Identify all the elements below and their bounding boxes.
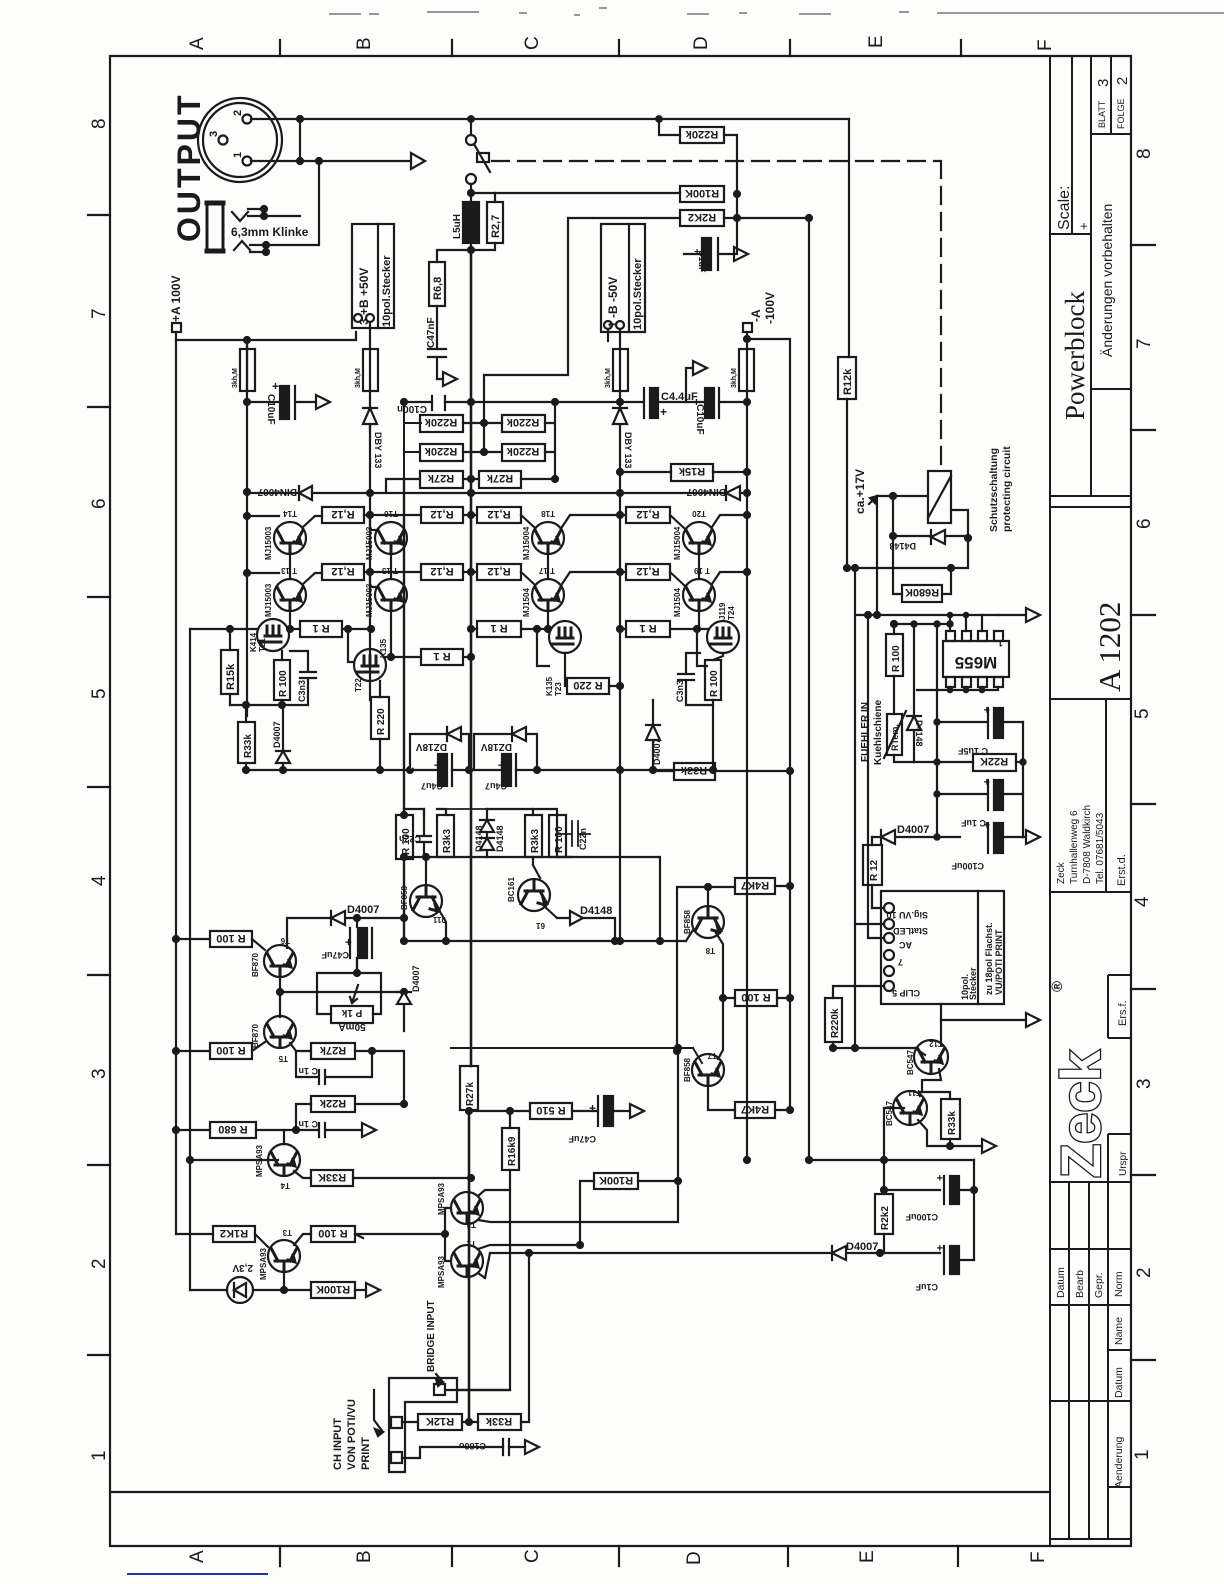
svg-text:C1uF: C1uF (915, 1282, 938, 1292)
terminal +A 100V (172, 323, 181, 332)
XLR output connector J1 (198, 98, 282, 182)
resistor R22K (protection) (973, 754, 1016, 771)
diode LED 2,3V (227, 1277, 253, 1303)
svg-text:K135: K135 (379, 638, 388, 658)
svg-text:K414: K414 (249, 632, 258, 652)
resistor R 100 (pre-driver link) (735, 990, 777, 1006)
svg-text:C4u7: C4u7 (485, 781, 507, 791)
grid letters top A-F (187, 35, 1056, 51)
svg-text:Zeck: Zeck (1049, 1050, 1112, 1178)
svg-text:MJ1504: MJ1504 (673, 588, 682, 617)
svg-text:C22n: C22n (578, 828, 588, 850)
transistor T9 BF858 (VAS) (410, 885, 442, 917)
wire: R2K2 left to feedback drop (484, 218, 680, 452)
svg-text:R,12: R,12 (430, 508, 453, 520)
svg-text:®: ® (1049, 981, 1066, 992)
resistor R,12 (2d) (626, 564, 670, 580)
border frame (110, 56, 1131, 1546)
resistor R 1 (d) (626, 621, 670, 637)
wire: T1 emitter row (478, 1245, 580, 1278)
svg-text:3kh,M: 3kh,M (605, 368, 612, 388)
wire: comparator feed row (857, 496, 998, 634)
svg-text:C47uF: C47uF (321, 950, 349, 960)
svg-text:R27k: R27k (319, 1044, 346, 1056)
svg-text:Bearb: Bearb (1074, 1270, 1086, 1298)
svg-text:1: 1 (998, 638, 1003, 648)
grid numbers left 8-1 (89, 118, 110, 1461)
wire: R100 leads (176, 939, 265, 950)
svg-text:10pol.Stecker: 10pol.Stecker (632, 258, 644, 330)
svg-text:AC: AC (899, 940, 912, 950)
svg-text:R 680: R 680 (218, 1123, 247, 1135)
svg-text:R220k: R220k (685, 128, 718, 140)
svg-text:R 12: R 12 (869, 859, 880, 881)
transistor T11 BC547 (893, 1091, 927, 1125)
svg-text:L5uH: L5uH (452, 214, 463, 239)
transistor T19 MJ1504 (683, 579, 715, 611)
svg-text:R 1: R 1 (490, 622, 507, 634)
resistor R16k9 (vert) (502, 1128, 519, 1170)
wire: diff pair bases (445, 1208, 449, 1261)
svg-text:R 510: R 510 (536, 1104, 565, 1116)
svg-text:C100n: C100n (397, 403, 427, 414)
transistor T4 MPSA93 (268, 1144, 300, 1176)
wire: bridge pin to R16k9 (445, 1389, 510, 1391)
+A left rail (175, 332, 177, 1234)
svg-text:+A 100V: +A 100V (169, 275, 183, 322)
wire: T2 emitter row (478, 1048, 678, 1222)
wire: input gnd row (402, 1447, 525, 1458)
svg-text:BRIDGE INPUT: BRIDGE INPUT (426, 1300, 437, 1372)
svg-text:C4.4uF: C4.4uF (661, 391, 698, 403)
svg-text:R100K: R100K (685, 187, 719, 199)
svg-text:VU/POTI PRINT: VU/POTI PRINT (994, 929, 1004, 995)
svg-text:D4007: D4007 (652, 738, 662, 765)
resistor R27k (divider left) (420, 471, 463, 488)
wire: T16 base stub (370, 515, 377, 530)
capacitor C180o (503, 1439, 509, 1455)
svg-text:Gepr.: Gepr. (1093, 1272, 1105, 1298)
svg-text:MJ1504: MJ1504 (522, 588, 531, 617)
svg-text:MJ15004: MJ15004 (673, 526, 682, 560)
svg-text:T6: T6 (280, 936, 290, 945)
resistor R220k (top right) (680, 127, 724, 143)
ground (362, 1123, 376, 1137)
svg-text:FOLGE: FOLGE (1116, 98, 1126, 129)
resistor R100K (T2 collector load) (594, 1173, 638, 1189)
wire: T24 source chain (713, 653, 723, 770)
mosfet T22 K135 (354, 649, 386, 681)
svg-text:+: + (589, 1101, 596, 1115)
wire: T8 emitter chain (716, 933, 723, 998)
resistor R 510 (530, 1103, 572, 1119)
svg-text:C3n3: C3n3 (675, 680, 685, 702)
svg-text:D4148: D4148 (474, 825, 484, 852)
output rail lower part (468, 1110, 471, 1423)
transistor T7 BF858 (692, 1054, 724, 1086)
wire: R33k rail stubs (245, 705, 247, 770)
wire: emitter node onward (372, 1051, 404, 1104)
svg-text:6: 6 (1134, 518, 1155, 529)
resistor R,12 (2b) (421, 564, 463, 580)
svg-text:D4007: D4007 (411, 965, 421, 992)
resistor R100K (LED row) (311, 1282, 355, 1298)
transistor T6 BF870 (264, 945, 296, 977)
wire: T23 source to R220h to -B rail (565, 653, 620, 686)
svg-text:T23: T23 (554, 682, 563, 696)
connector body (L shape) (389, 1378, 457, 1472)
inductor L 5uH (463, 202, 479, 243)
svg-text:R22k: R22k (319, 1097, 346, 1109)
relay contact switch S1 (466, 135, 476, 145)
resistor R100K (top right) (680, 186, 724, 202)
capacitor C1uF (top) (702, 238, 711, 270)
svg-text:T2: T2 (466, 1220, 476, 1229)
svg-text:R2k2: R2k2 (880, 1206, 891, 1230)
svg-text:T24: T24 (727, 606, 736, 620)
svg-text:A: A (187, 1550, 208, 1563)
diode DIN4007 (right) (726, 486, 740, 500)
resistor R33k (on left rail, vert) (238, 722, 255, 763)
svg-text:Datum: Datum (1055, 1267, 1067, 1298)
resistor R 1 (b) (421, 649, 463, 665)
svg-text:T5: T5 (278, 1054, 288, 1063)
bias rail (246, 769, 713, 771)
resistor R,12 (1c) (477, 507, 521, 523)
resistor R6,8 (429, 262, 445, 306)
ground (316, 395, 330, 409)
fuse 1kA,M (+A) (240, 349, 255, 391)
wire: R6,8 to C47nF (436, 306, 438, 349)
svg-text:BC161: BC161 (507, 877, 516, 902)
svg-text:R16k9: R16k9 (507, 1136, 518, 1166)
svg-text:R,12: R,12 (636, 508, 659, 520)
svg-text:3kh,M: 3kh,M (355, 368, 362, 388)
resistor R,12 (2c) (477, 564, 521, 580)
svg-text:R15k: R15k (678, 465, 705, 477)
svg-text:8: 8 (1134, 148, 1155, 159)
svg-text:+: + (1076, 222, 1091, 230)
capacitor C22n (417, 809, 431, 857)
svg-text:D4007: D4007 (846, 1241, 878, 1253)
svg-text:3: 3 (208, 131, 220, 137)
diode D4148 (at Q6) (544, 906, 583, 925)
wire: R220 leads (379, 681, 381, 770)
svg-text:3 +B +50V: 3 +B +50V (357, 268, 371, 325)
svg-text:R220k: R220k (424, 416, 457, 428)
wire: row2 to driver row (290, 611, 699, 657)
svg-text:BF858: BF858 (400, 885, 409, 910)
svg-text:2,3V: 2,3V (232, 1262, 253, 1273)
svg-text:T8: T8 (705, 946, 715, 955)
svg-text:R,12: R,12 (430, 565, 453, 577)
svg-text:R,12: R,12 (487, 508, 510, 520)
svg-text:C22n: C22n (399, 834, 421, 844)
svg-text:R220k: R220k (506, 416, 539, 428)
grid letters bottom A-F (187, 1549, 1049, 1565)
title block lines (1049, 56, 1131, 1546)
capacitor C100uF (987, 823, 989, 853)
svg-text:Zeck: Zeck (1056, 861, 1067, 884)
svg-text:3: 3 (1095, 79, 1112, 87)
resistor R2K2 (top right) (680, 210, 724, 226)
main left rail junctions (244, 489, 250, 495)
capacitor C3n3 (left) (290, 651, 316, 705)
resistor R 220 (T22 source, vert) (371, 697, 389, 739)
svg-text:MJ15003: MJ15003 (365, 526, 374, 560)
svg-text:+: + (345, 935, 352, 949)
capacitor C47uF (zobel) (597, 1096, 599, 1126)
svg-text:Urspr: Urspr (1118, 1151, 1129, 1176)
svg-text:BLATT: BLATT (1097, 100, 1107, 128)
svg-text:R220k: R220k (830, 1008, 841, 1038)
resistor R680K (902, 585, 942, 602)
wire: switch to L and R2,7 (471, 193, 495, 202)
resistor R 1 (a) (300, 621, 342, 637)
mid horizontal rail (lower driver) (404, 930, 693, 941)
resistor R 1 (c) (477, 621, 521, 637)
wire: T11 emitter to gnd (918, 1120, 982, 1146)
svg-text:8: 8 (89, 118, 110, 129)
svg-text:6,3mm Klinke: 6,3mm Klinke (231, 225, 309, 239)
diode D4007 (mid, vert) (646, 700, 660, 771)
wire: pin4 rail down (369, 322, 371, 349)
wire: divider row2 (463, 451, 502, 453)
svg-text:R27k: R27k (465, 1082, 476, 1106)
wire: IC bottom row (917, 687, 998, 690)
resistor R 100 (comparator, vert) (886, 634, 903, 676)
resistor R1K2 (213, 1226, 255, 1242)
resistor R 100 (T21 source, vert) (274, 660, 290, 700)
wire: RTem leads (894, 676, 914, 762)
svg-text:D4148: D4148 (495, 825, 505, 852)
resistor R,12 (1d) (626, 507, 670, 523)
svg-text:R 100: R 100 (216, 932, 245, 944)
grid numbers right 8-1 (1132, 148, 1155, 1460)
wire: tail row with D4007 (485, 1253, 880, 1278)
svg-text:T7: T7 (707, 1051, 717, 1060)
svg-text:DIN4007: DIN4007 (686, 486, 726, 497)
wire: VAS cell tops (404, 809, 446, 815)
resistor R 100 (T3) (311, 1226, 355, 1242)
svg-text:Scale:: Scale: (1056, 186, 1073, 230)
svg-text:011: 011 (433, 915, 446, 924)
svg-text:3kh,M: 3kh,M (731, 368, 738, 388)
wire: T8 base row (677, 887, 735, 1051)
svg-text:DZ18V: DZ18V (481, 741, 512, 752)
svg-text:7: 7 (898, 957, 903, 967)
+B rail down (369, 391, 371, 700)
svg-text:Erst.d.: Erst.d. (1116, 854, 1128, 886)
svg-text:protecting circuit: protecting circuit (1001, 446, 1013, 532)
svg-text:+: + (498, 758, 505, 772)
svg-text:+: + (937, 1241, 943, 1253)
resistor R2,7 (487, 202, 503, 243)
svg-text:A: A (187, 37, 208, 50)
node: pin bridge (297, 116, 303, 122)
transistor T13 MJ15003 (274, 579, 306, 611)
resistor R33k (driver feed) (674, 763, 715, 780)
svg-text:CLIP 5: CLIP 5 (892, 988, 920, 998)
resistor R15k (left, vert) (221, 650, 238, 694)
wire: R2K2 right to right rail (724, 217, 809, 219)
svg-text:Name: Name (1113, 1317, 1125, 1345)
svg-text:PRINT: PRINT (360, 1437, 372, 1470)
resistor R 100 (T5 base) (210, 1043, 252, 1059)
bottom right supply row (809, 1159, 974, 1161)
svg-text:D4007: D4007 (897, 824, 929, 836)
wire: +A to main left rail (176, 332, 356, 492)
svg-text:R33K: R33K (318, 1171, 346, 1183)
capacitor C10uF (right) (705, 388, 714, 418)
svg-text:BC547: BC547 (906, 1050, 915, 1075)
diode D4007 (par R33k) (276, 705, 290, 770)
connector 10pol -B -50V (601, 224, 645, 332)
resistor R 220 (T23 source, horiz) (567, 678, 609, 694)
transistor T18 MJ15004 (532, 522, 564, 554)
transistor T12 BC547 (914, 1040, 948, 1074)
wire: L/R2,7 bottom join (437, 243, 495, 262)
wire: top rail to R220k top right (659, 119, 680, 135)
wire: R15k leads (620, 471, 747, 473)
svg-text:Aenderung: Aenderung (1113, 1436, 1125, 1488)
svg-text:T 15: T 15 (381, 566, 398, 575)
capacitor C100uF (bias lower) (884, 1176, 944, 1204)
svg-text:Norm: Norm (1113, 1271, 1125, 1297)
svg-text:F: F (1028, 1551, 1049, 1563)
svg-text:3kh,M: 3kh,M (232, 368, 239, 388)
svg-text:FUEHLER IN: FUEHLER IN (860, 702, 871, 762)
diode D4148 (relay) (931, 530, 945, 544)
svg-text:DZ18V: DZ18V (416, 741, 447, 752)
svg-text:R 100: R 100 (891, 645, 902, 672)
capacitor C 1n (input gnd) (296, 1123, 362, 1137)
capacitor C 1uF (937, 780, 988, 810)
resistor R15k (right) (671, 464, 713, 481)
svg-text:MPSA93: MPSA93 (259, 1247, 268, 1280)
pot P 1k box (331, 1006, 373, 1023)
capacitor C4.4uF (643, 388, 645, 418)
svg-text:DBY 133: DBY 133 (623, 432, 633, 468)
resistor R220k (divider right a) (502, 415, 545, 432)
wire: T3 collector to R100 (294, 1234, 311, 1245)
wire: T6 emitter to T5 (279, 977, 281, 1017)
diode D4007 (to caps) (872, 830, 960, 844)
svg-text:+: + (272, 379, 279, 393)
label CH INPUT VON POTI/VU PRINT (332, 1399, 372, 1470)
svg-text:Tel. 07681/5043: Tel. 07681/5043 (1095, 812, 1106, 884)
svg-text:B: B (354, 37, 375, 50)
svg-text:M655: M655 (955, 653, 998, 672)
wire: XLR pin1 run (251, 160, 411, 162)
svg-text:T22: T22 (354, 678, 363, 692)
diodes D4148 x2 (series, vert) (480, 809, 494, 857)
resistor R27k (T5 emitter) (311, 1043, 355, 1059)
resistor R27k (on output rail, vert) (460, 1066, 478, 1110)
wire: T21 gate row (190, 628, 258, 630)
svg-text:R3k3: R3k3 (530, 829, 541, 853)
svg-text:Sig.VU 10: Sig.VU 10 (886, 910, 928, 920)
wire: jack to pin1 net (264, 161, 319, 245)
wire: T21 source chain (230, 651, 308, 705)
bias divider drop wire (404, 402, 421, 479)
svg-text:D: D (684, 1551, 705, 1565)
svg-text:+: + (984, 818, 990, 830)
svg-text:MJ15003: MJ15003 (365, 583, 374, 617)
svg-text:R,12: R,12 (331, 565, 354, 577)
svg-text:C: C (522, 36, 543, 50)
transistor T15 MJ15003 (375, 579, 407, 611)
resistor R220k (clip, vert) (825, 998, 842, 1042)
resistor R,12 (1a) (322, 507, 364, 523)
resistor R 100 (T6 base) (210, 931, 252, 947)
svg-text:R100K: R100K (316, 1283, 350, 1295)
svg-text:T16: T16 (384, 509, 398, 518)
resistor R 100 (T24 source, vert) (705, 660, 721, 700)
wire: connector gnd (941, 1004, 1040, 1027)
resistor R3k3 (left pair a) (437, 815, 454, 857)
resistor R3k3 (right of diodes) (525, 815, 542, 857)
svg-text:R 1: R 1 (433, 650, 450, 662)
wire: T12 emitter to T11 (922, 1069, 941, 1092)
ground (437, 372, 457, 386)
diode D4007 (bias line) (331, 911, 404, 925)
wire: IC pin stubs top (950, 615, 982, 631)
svg-text:Änderungen vorbehalten: Änderungen vorbehalten (1099, 204, 1115, 357)
diode DBY 133 (-B rail) (613, 391, 627, 941)
svg-text:R1K2: R1K2 (220, 1227, 248, 1239)
wire: pin1-pin2 bridge (299, 119, 301, 161)
left main rail (246, 492, 248, 716)
capacitor C100n (432, 396, 445, 410)
svg-text:T4: T4 (280, 1181, 290, 1190)
transistor T1 MPSA93 (451, 1245, 483, 1277)
diode DIN4007 (left) (299, 486, 312, 500)
svg-text:2: 2 (1114, 77, 1131, 85)
long rail from divider to VAS (403, 479, 405, 941)
wire: VAS cell bottoms (404, 857, 660, 941)
wire: C1uF stub (684, 218, 737, 254)
ground (366, 1283, 380, 1297)
diode D4148 (thermal) (907, 624, 921, 762)
svg-text:MJ15003: MJ15003 (264, 526, 273, 560)
grid tick marks left (88, 215, 110, 1355)
wire: -A down (746, 332, 748, 349)
cap return column (973, 1160, 975, 1260)
blue pen mark bottom left (127, 1573, 268, 1575)
svg-text:+: + (693, 395, 700, 409)
wire: T22 source row (386, 656, 421, 658)
svg-text:K135: K135 (545, 676, 554, 696)
svg-text:R12K: R12K (426, 1415, 454, 1427)
mosfet T23 K135 (549, 621, 581, 653)
svg-text:Powerblock: Powerblock (1060, 291, 1090, 420)
left sense line down (189, 629, 191, 1290)
wire: T12 base/collector (915, 1020, 941, 1055)
svg-text:5: 5 (89, 688, 110, 699)
wire: T7 base to R4K7 row (708, 1086, 735, 1110)
svg-text:7: 7 (1134, 338, 1155, 349)
wire: relay drive loop (877, 496, 968, 568)
svg-text:Kuehlschiene: Kuehlschiene (873, 700, 884, 765)
svg-text:R4K7: R4K7 (741, 1103, 769, 1115)
svg-text:ca.+17V: ca.+17V (853, 469, 867, 514)
capacitor C4u7 (cell 1) (438, 754, 447, 786)
comparator cap column (936, 624, 938, 837)
wire: R33k to right rail (653, 770, 790, 772)
svg-text:4: 4 (1132, 896, 1153, 907)
svg-text:C4u7: C4u7 (421, 781, 443, 791)
